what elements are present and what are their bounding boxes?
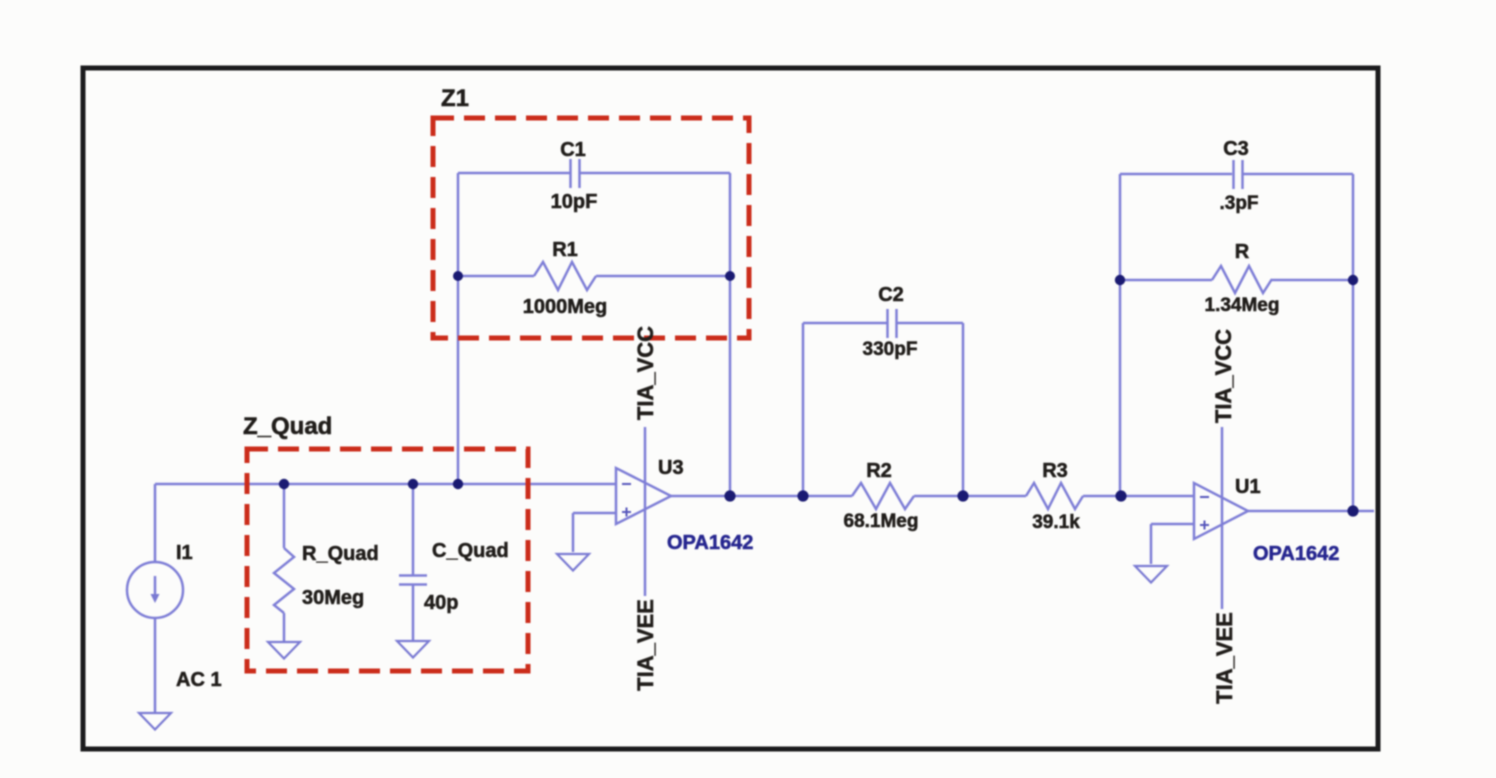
svg-text:R1: R1 (552, 239, 578, 261)
svg-text:1.34Meg: 1.34Meg (1205, 295, 1280, 316)
svg-text:TIA_VCC: TIA_VCC (1211, 329, 1236, 423)
svg-text:TIA_VEE: TIA_VEE (633, 599, 658, 691)
svg-text:30Meg: 30Meg (302, 587, 364, 609)
svg-text:39.1k: 39.1k (1032, 512, 1080, 533)
svg-text:AC 1: AC 1 (176, 669, 222, 691)
svg-text:68.1Meg: 68.1Meg (844, 511, 919, 532)
svg-text:330pF: 330pF (863, 339, 918, 360)
svg-text:OPA1642: OPA1642 (1253, 543, 1339, 565)
svg-text:R2: R2 (866, 460, 892, 482)
svg-text:C3: C3 (1223, 138, 1249, 160)
svg-text:10pF: 10pF (551, 191, 598, 213)
svg-text:C_Quad: C_Quad (432, 540, 509, 562)
svg-text:Z1: Z1 (441, 85, 469, 112)
svg-text:TIA_VCC: TIA_VCC (633, 326, 658, 420)
svg-text:TIA_VEE: TIA_VEE (1212, 612, 1237, 704)
svg-text:U3: U3 (658, 457, 684, 479)
svg-text:C1: C1 (560, 139, 586, 161)
svg-text:1000Meg: 1000Meg (523, 296, 608, 318)
svg-text:OPA1642: OPA1642 (667, 532, 753, 554)
svg-text:R3: R3 (1042, 460, 1068, 482)
svg-text:40p: 40p (424, 592, 458, 614)
svg-text:Z_Quad: Z_Quad (243, 413, 332, 440)
svg-text:R: R (1235, 241, 1250, 263)
svg-text:.3pF: .3pF (1219, 193, 1258, 214)
svg-text:C2: C2 (878, 284, 904, 306)
svg-text:U1: U1 (1235, 476, 1261, 498)
svg-text:I1: I1 (176, 542, 193, 564)
svg-text:R_Quad: R_Quad (302, 543, 379, 565)
